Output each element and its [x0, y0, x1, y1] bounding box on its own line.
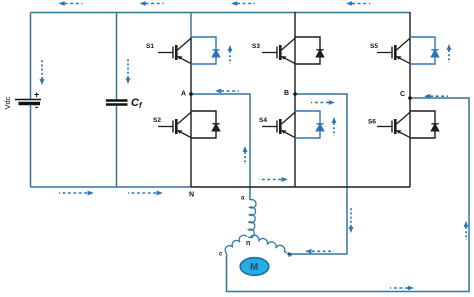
svg-text:c: c [219, 252, 223, 258]
svg-text:b: b [288, 253, 292, 259]
svg-text:S4: S4 [259, 117, 267, 124]
svg-text:S1: S1 [146, 43, 154, 50]
svg-text:Cf: Cf [131, 97, 143, 110]
svg-text:n: n [246, 240, 250, 247]
svg-text:S2: S2 [153, 117, 161, 124]
svg-text:M: M [250, 262, 258, 273]
svg-text:a: a [241, 196, 245, 202]
svg-text:S5: S5 [370, 43, 378, 50]
svg-text:S3: S3 [252, 43, 260, 50]
svg-text:B: B [284, 90, 289, 97]
svg-text:N: N [189, 192, 194, 199]
svg-text:-: - [35, 102, 38, 113]
svg-text:A: A [181, 91, 186, 98]
svg-text:+: + [34, 90, 39, 100]
svg-text:Vdc: Vdc [3, 96, 12, 109]
svg-text:S6: S6 [368, 119, 376, 126]
svg-text:C: C [400, 91, 405, 98]
